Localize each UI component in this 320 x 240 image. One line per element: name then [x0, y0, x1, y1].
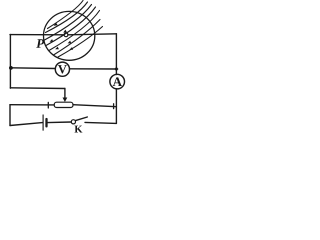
- ray arrowhead 3: [50, 39, 54, 42]
- wire battery to switch: [48, 121, 72, 124]
- light ray 3: [45, 5, 92, 41]
- wire bottom-left vertical: [9, 105, 11, 126]
- wiper arrowhead: [63, 98, 68, 103]
- ray arrowhead 5: [55, 47, 59, 50]
- battery B1 short plate: [45, 119, 47, 126]
- label V: [58, 65, 67, 73]
- ray arrowhead 2: [63, 30, 67, 33]
- wire voltmeter branch left: [11, 67, 55, 70]
- light ray 7: [58, 27, 103, 58]
- junction dot left: [9, 66, 13, 70]
- ray arrowhead 1: [54, 23, 58, 26]
- junction dot right: [114, 67, 118, 71]
- switch K blade: [76, 117, 88, 121]
- wire switch to corner: [85, 122, 116, 123]
- light ray 6: [54, 20, 101, 56]
- light ray 5: [49, 11, 100, 51]
- wire wiper vertical: [64, 89, 66, 99]
- phototube P envelope: [44, 11, 95, 60]
- wire right vertical upper: [115, 34, 117, 75]
- wire cathode lead left: [10, 34, 64, 36]
- light ray 1: [48, 1, 84, 29]
- rheostat R1 body: [54, 102, 73, 107]
- wire rheostat right end: [73, 105, 116, 107]
- wire right vertical lower: [115, 89, 117, 124]
- switch K pivot: [71, 120, 75, 124]
- label P: [36, 39, 44, 48]
- terminal tick left: [47, 102, 49, 108]
- light ray 4: [46, 7, 96, 46]
- wire voltmeter branch right: [70, 68, 117, 70]
- light ray 2: [46, 2, 88, 33]
- ray arrowhead 6: [69, 47, 73, 50]
- battery B1 long plate: [42, 115, 44, 130]
- wire wiper feed horizontal: [10, 87, 65, 90]
- wire bottom rail left: [10, 123, 42, 126]
- ammeter U2 A: [110, 74, 125, 89]
- wire rheostat left end: [10, 104, 54, 106]
- label A: [113, 77, 122, 86]
- wire anode lead right: [68, 34, 117, 35]
- anode ring: [64, 33, 68, 37]
- ray arrowhead 4: [68, 41, 72, 44]
- label K: [75, 126, 83, 133]
- terminal tick right: [113, 104, 115, 109]
- wire left vertical: [9, 35, 11, 89]
- voltmeter U1 V: [55, 62, 69, 76]
